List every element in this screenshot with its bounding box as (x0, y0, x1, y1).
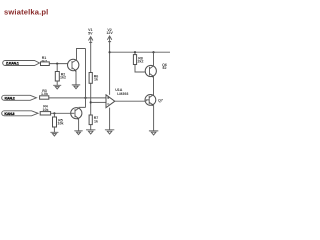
ground under R7 (86, 130, 95, 134)
ground under Q7 (149, 131, 158, 135)
resistor R8 (133, 55, 136, 65)
ground under R5 (50, 132, 58, 136)
wire R7 to ground (90, 125, 92, 130)
wire rail V1 (90, 38, 92, 73)
wire op-amp output (115, 100, 146, 102)
transistor Q6 (145, 65, 156, 77)
transistor T1 (68, 59, 79, 71)
wire Q6 collector (153, 52, 155, 66)
resistor R5 (53, 117, 57, 127)
wire R2 branch (56, 64, 58, 72)
wire rail X (85, 49, 87, 108)
wire R5 branch (53, 113, 55, 117)
connector J3 (2, 111, 38, 116)
svg-text:Z.KAN.1: Z.KAN.1 (6, 62, 19, 66)
svg-text:12V: 12V (106, 31, 113, 35)
transistor Q7 (145, 95, 156, 107)
wire row3 (51, 112, 71, 114)
wire Q7 emitter to ground (153, 105, 155, 131)
node V2 rail junction (109, 51, 111, 53)
wire row1 (49, 63, 71, 65)
svg-text:1k: 1k (94, 119, 98, 123)
node row3-R5 junction (53, 112, 55, 114)
resistor R1 (41, 62, 50, 66)
resistor R4 (40, 112, 50, 115)
supply V1 arrow (89, 37, 93, 43)
resistor R3 (40, 96, 49, 99)
resistor R6 (89, 73, 92, 84)
svg-text:10k: 10k (58, 122, 64, 126)
svg-text:k2: k2 (163, 66, 167, 70)
wire V2 stem (109, 37, 111, 95)
wire Q6 emitter to Q7 collector (153, 76, 155, 95)
wire row2 to op-amp (49, 97, 106, 99)
node rail X / row2 (84, 97, 86, 99)
wire rail to R8 (134, 52, 136, 54)
svg-text:KAN.2: KAN.2 (5, 97, 15, 101)
wire divider tap to op-amp (91, 101, 106, 103)
svg-text:KAN.3: KAN.3 (4, 112, 14, 116)
svg-text:Q7: Q7 (158, 99, 163, 103)
node row1-R2 junction (56, 63, 58, 65)
wire T2 collector (79, 106, 85, 109)
resistor R7 (89, 115, 92, 125)
svg-text:LM393: LM393 (117, 92, 128, 96)
wire T2 emitter (78, 119, 80, 131)
ground under T2 (74, 131, 82, 135)
wire op-amp V- pin to ground (109, 108, 111, 130)
svg-text:5V: 5V (88, 31, 93, 35)
transistor T2 (71, 108, 82, 120)
svg-text:1k2: 1k2 (60, 76, 66, 80)
wire R8 to Q6 base (135, 65, 145, 73)
op-amp U1A (106, 95, 115, 108)
ground under T1 (72, 85, 80, 89)
svg-text:swiatelka.pl: swiatelka.pl (4, 7, 48, 16)
wire T1 collector (77, 49, 86, 60)
connector J1 (3, 61, 40, 66)
wire R5 to ground (53, 127, 55, 132)
connector J2 (2, 95, 37, 100)
node rail-R8 junction (134, 51, 136, 53)
wire T1 emitter (75, 71, 77, 85)
node divider tap (90, 101, 92, 103)
svg-text:1k: 1k (94, 78, 98, 82)
supply V2 arrow (107, 36, 111, 42)
ground under op-amp (105, 130, 114, 134)
svg-text:2k2: 2k2 (138, 60, 144, 64)
node rail-Q6 collector (152, 51, 154, 53)
resistor R2 (55, 72, 59, 82)
ground under R2 (53, 85, 61, 89)
wire R6 to R7 (90, 83, 92, 115)
wire top rail (110, 51, 171, 53)
wire R2 to ground (56, 81, 58, 85)
svg-text:1.0k: 1.0k (41, 92, 48, 96)
